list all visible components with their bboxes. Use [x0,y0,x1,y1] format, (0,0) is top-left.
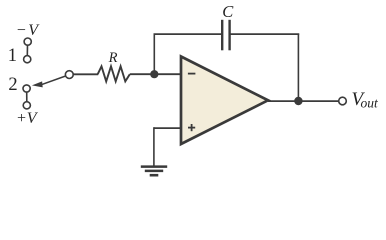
wire resistor to inverting input [130,73,181,75]
wire pole to resistor [73,73,98,75]
terminal circle +V [23,102,30,109]
switch pole circle [65,71,73,79]
svg-text:C: C [222,2,234,21]
resistor R [98,66,130,81]
capacitor C left plate [221,20,223,51]
svg-text:+V: +V [16,110,39,127]
switch contact 1 [24,56,31,63]
wire junction up to feedback [153,34,155,75]
wire bend down to ground [153,127,155,166]
output terminal circle [339,97,347,105]
switch arm toward contact 2 [41,76,66,85]
junction node at output [294,97,302,105]
op-amp non-inverting input marker horizontal [188,127,195,129]
svg-text:R: R [108,50,118,66]
ground bottom bar [150,174,159,177]
op-amp inverting input marker [188,73,196,75]
feedback wire right segment [230,33,300,35]
ground middle bar [145,170,163,173]
switch arm arrowhead [32,81,43,87]
terminal circle -V [24,38,31,45]
wire op-amp output [268,100,339,102]
wire -V terminal to contact 1 [26,45,28,55]
wire contact 2 to +V terminal [26,92,28,102]
svg-text:2: 2 [8,75,17,95]
svg-text:out: out [361,95,380,110]
feedback wire left segment [154,33,223,35]
capacitor C right plate [228,20,230,51]
feedback wire down to output node [297,34,299,102]
wire non-inverting input to bend [154,127,181,129]
junction node at inverting input [150,70,158,78]
svg-text:1: 1 [8,46,17,66]
op-amp U1 [181,57,268,145]
switch contact 2 [23,85,30,92]
ground top bar [141,165,167,168]
svg-text:−V: −V [16,22,40,39]
op-amp non-inverting input marker vertical [191,124,193,131]
